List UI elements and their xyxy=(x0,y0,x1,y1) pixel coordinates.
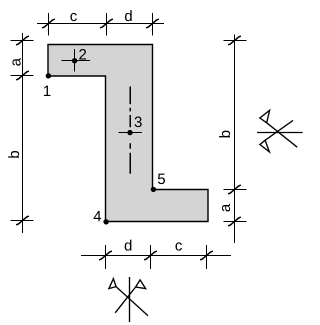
label 5 xyxy=(158,174,165,184)
bottom dimension tick slashes xyxy=(99,251,112,260)
point 2 cross xyxy=(62,49,91,72)
label b (right) xyxy=(219,131,230,138)
right principal-axis symbol xyxy=(257,110,303,151)
top dimension tick slashes xyxy=(42,19,55,28)
right dimension tick slashes xyxy=(228,36,241,45)
point 3 centerline (dash-dot) xyxy=(129,87,131,174)
node 1 xyxy=(46,73,51,78)
node 5 xyxy=(151,187,156,192)
label 1 xyxy=(44,86,50,96)
label a (right) xyxy=(222,204,230,212)
label 3 xyxy=(135,117,142,128)
left dimension line xyxy=(11,33,34,233)
label 2 xyxy=(79,49,86,59)
right dimension line xyxy=(224,35,247,244)
label d (bottom) xyxy=(125,240,132,251)
point 3 horizontal arm xyxy=(119,132,143,134)
Z-section area xyxy=(48,45,208,222)
left dimension tick slashes xyxy=(16,36,29,45)
label c (top) xyxy=(70,13,76,21)
bottom principal-axis symbol xyxy=(109,277,148,322)
node 2 xyxy=(72,58,77,63)
label 4 xyxy=(94,211,102,221)
node 3 xyxy=(127,130,132,135)
top dimension line xyxy=(37,13,164,36)
node 4 xyxy=(103,219,108,224)
label b (left) xyxy=(8,151,19,158)
label d (top) xyxy=(125,10,132,21)
label c (bottom) xyxy=(175,242,181,250)
label a (left) xyxy=(12,58,20,66)
bottom dimension line xyxy=(81,245,231,269)
